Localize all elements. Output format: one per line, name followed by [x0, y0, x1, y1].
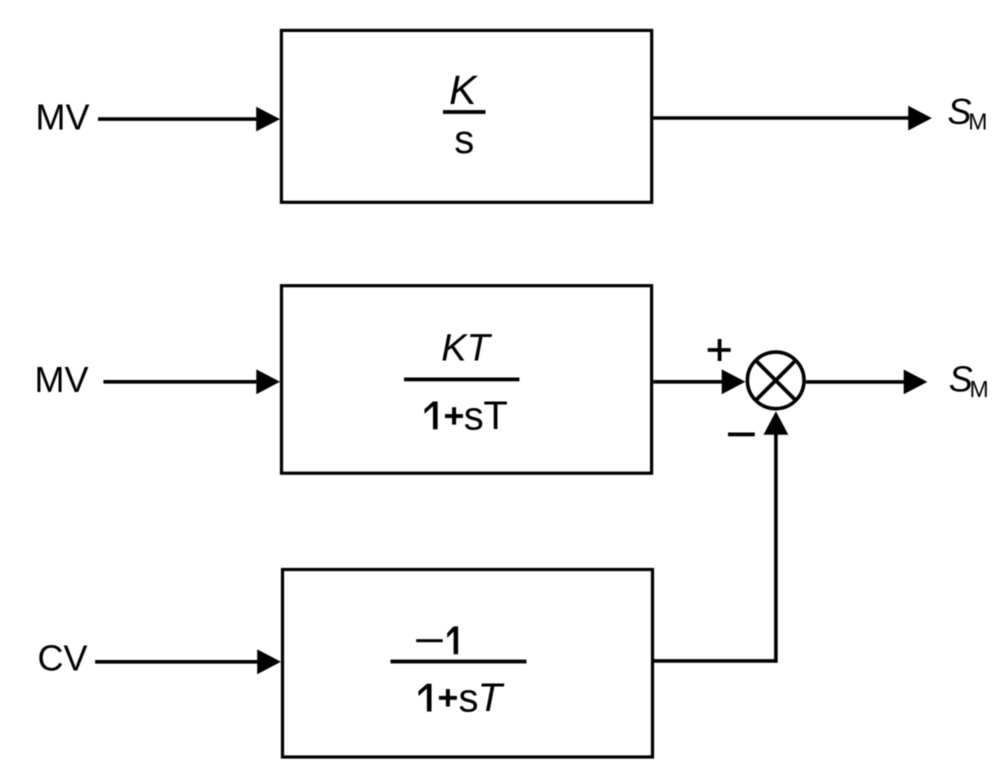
svg-text:s: s [464, 394, 484, 438]
minus sign [728, 433, 755, 437]
arrowhead top output [908, 106, 932, 131]
value -1 (numerator) [416, 639, 443, 642]
value 1+sT italic T (denominator) [418, 676, 504, 720]
svg-text:s: s [459, 676, 479, 720]
wire middle to summing junction [653, 380, 725, 384]
plus sign [708, 339, 731, 361]
svg-text:CV: CV [37, 638, 87, 679]
fraction bar 2 [404, 378, 519, 382]
fraction bar 3 [391, 660, 527, 664]
fraction bar 1 [443, 110, 486, 114]
arrowhead into summing junction [722, 369, 746, 394]
svg-text:MV: MV [35, 359, 89, 400]
arrowhead summing output [904, 370, 928, 395]
svg-text:M: M [970, 376, 989, 402]
svg-text:T: T [478, 676, 505, 720]
wire feedback horizontal [654, 659, 776, 663]
svg-text:K: K [449, 67, 478, 113]
summing junction X diagonal 2 [756, 360, 796, 400]
node SM (middle output label) [949, 358, 989, 402]
svg-text:KT: KT [441, 328, 492, 370]
wire top output [653, 116, 910, 120]
node SM (top output label) [948, 91, 988, 135]
wire feedback vertical [774, 433, 778, 663]
wire top input [98, 117, 260, 121]
arrowhead bottom input [257, 649, 281, 674]
arrowhead feedback into junction [764, 411, 789, 435]
wire summing junction output [806, 380, 906, 384]
block G1: K/s [281, 30, 651, 202]
arrowhead top input [256, 107, 280, 132]
svg-text:s: s [454, 118, 474, 162]
summing junction circle [747, 352, 804, 409]
svg-text:T: T [483, 394, 507, 438]
summing junction X diagonal 1 [756, 360, 796, 400]
block G2: KT/(1+sT) [282, 286, 652, 474]
svg-text:M: M [968, 109, 987, 135]
wire bottom input [95, 660, 260, 664]
arrowhead middle input [256, 369, 280, 394]
svg-text:MV: MV [36, 97, 90, 138]
wire middle input [103, 380, 260, 384]
value 1+sT (denominator) [425, 394, 508, 439]
block G3: -1/(1+sT) [283, 570, 653, 758]
